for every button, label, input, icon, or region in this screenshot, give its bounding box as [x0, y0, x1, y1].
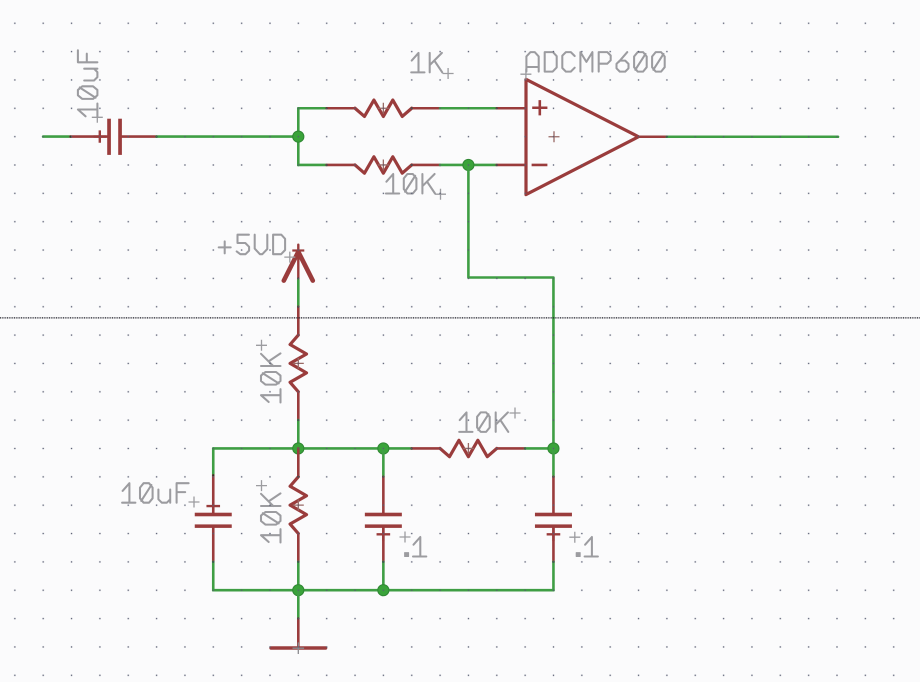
origin cross of C2 label: [189, 497, 200, 508]
wire R4 right pin to node E: [525, 447, 553, 450]
wire node A to R2 left pin: [298, 164, 326, 167]
ground symbol GND: [271, 619, 326, 648]
origin cross of R1 label: [443, 68, 454, 79]
value label 10K for R5 (rotated): [261, 493, 281, 542]
value label .1 for C3: [405, 537, 427, 557]
wire node D to R4 left pin: [383, 447, 411, 450]
value label .1 for C4: [576, 537, 598, 557]
capacitor C1 10uF series input cap (polarized): [71, 119, 157, 155]
resistor R3 10K pull-up from +5VD: [290, 307, 306, 420]
origin cross of U1 label: [520, 69, 531, 80]
origin cross at R1 body center: [378, 103, 389, 114]
wire node F to ground symbol: [297, 590, 300, 618]
value label 10K for R4: [459, 412, 508, 432]
wire R1 right pin to comparator + pin: [440, 107, 497, 110]
origin cross of R3 label: [256, 340, 267, 351]
origin cross of C4 label: [569, 532, 580, 543]
wire net IN: segment from left edge to C1: [43, 135, 70, 138]
pin connection points: [70, 107, 668, 619]
resistor R1 1K (feedback, to comparator + input): [327, 100, 440, 116]
resistor R2 10K (to comparator - input): [327, 157, 440, 173]
wire +5VD pin to R3 top pin: [297, 280, 300, 307]
node B junction on comparator - input net: [463, 159, 474, 170]
value label 10uF for C2: [122, 483, 189, 503]
origin cross at R5 body center: [293, 500, 304, 511]
origin cross of C1 label: [92, 112, 103, 123]
value label 10uF for C1 (rotated): [78, 50, 98, 117]
origin cross of R5 label: [256, 480, 267, 491]
wire net OUT from comparator output to right: [667, 135, 838, 138]
origin cross of ground symbol: [293, 642, 305, 654]
resistor R4 10K (to reference node E): [412, 440, 525, 456]
capacitor C4 .1 bypass on reference node E: [535, 448, 572, 590]
node E junction (reference node): [548, 443, 559, 454]
origin cross at R4 body center: [463, 443, 474, 454]
node C junction (divider tap): [293, 443, 304, 454]
origin cross of R2 label: [435, 189, 446, 200]
origin cross of R4 label: [510, 408, 521, 419]
origin cross of U1: [549, 131, 560, 142]
wire net from node B down and over to reference node: [468, 165, 553, 449]
resistor R5 10K lower divider resistor: [290, 448, 306, 561]
origin cross of +5VD label: [284, 252, 295, 263]
capacitor C3 .1 bypass on node D: [365, 448, 402, 590]
value label 10K for R2: [386, 174, 435, 194]
wire net IN: segment from C1 to node A: [157, 135, 299, 138]
value label 1K for R1: [411, 53, 442, 73]
origin cross of C3 label: [400, 532, 411, 543]
value label 10K for R3 (rotated): [261, 353, 281, 402]
power supply symbol +5VD: [284, 245, 313, 281]
wire R2 right pin to node B and comparator - pin: [440, 164, 497, 167]
wire R5 bottom pin to bottom rail node F: [297, 562, 300, 590]
node F junction on ground rail: [293, 585, 304, 596]
wire bottom ground rail: [213, 589, 553, 592]
node G junction on ground rail: [378, 585, 389, 596]
capacitor C2 10uF bypass on node C (polarized): [195, 448, 232, 590]
part name label ADCMP600 for U1: [526, 52, 664, 72]
wire mid rail: node C to node D: [298, 447, 383, 450]
wire node A to R1 left pin: [298, 107, 326, 110]
net name label +5VD: [219, 235, 285, 255]
node D junction (mid cap tap): [378, 443, 389, 454]
op-amp U1 ADCMP600 comparator: [497, 79, 667, 194]
wire mid rail: left cap branch to node C: [213, 447, 298, 450]
node A junction at input divider: [293, 108, 304, 165]
origin cross at R2 body center: [378, 159, 389, 170]
wire R3 bottom pin to node C: [297, 420, 300, 448]
origin cross at R3 body center: [293, 358, 304, 369]
